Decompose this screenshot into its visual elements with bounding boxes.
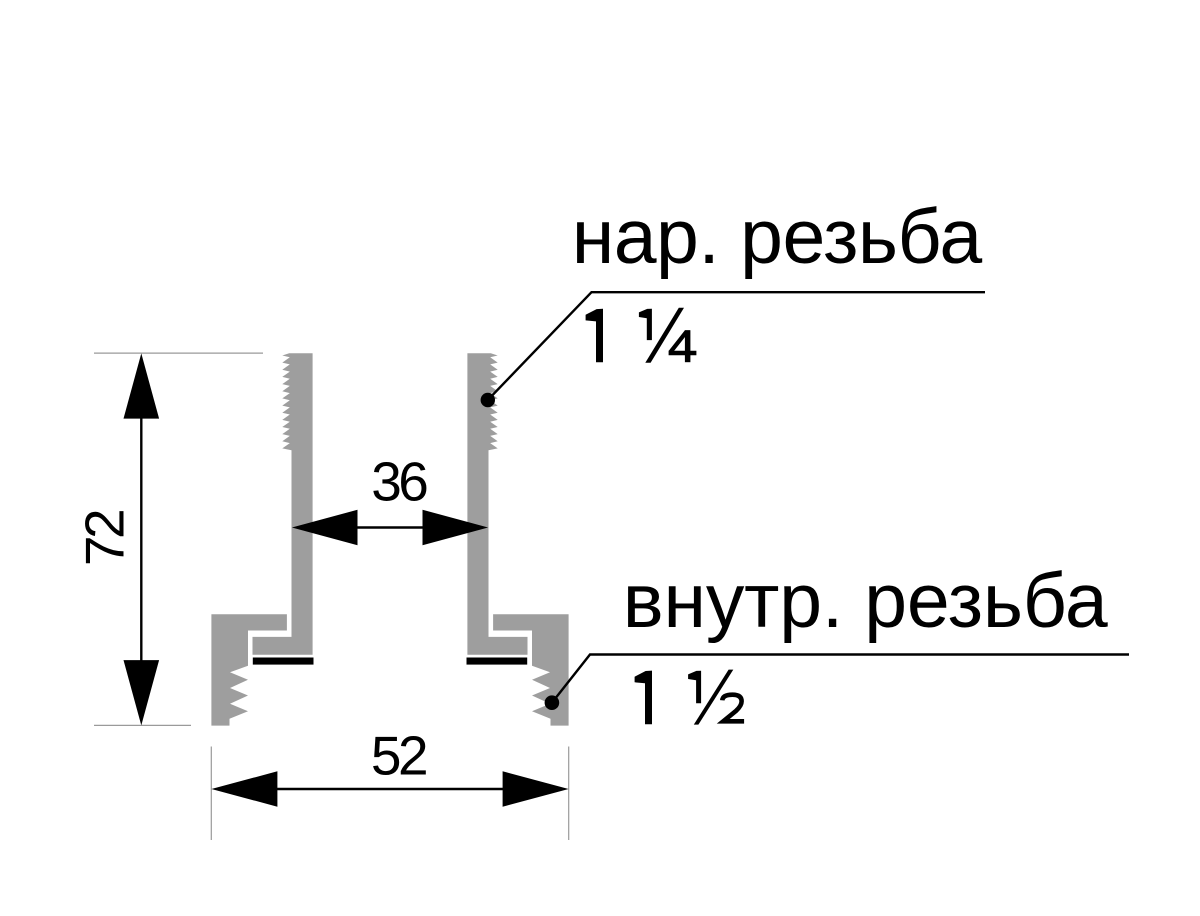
dimension line 52 (horizontal) xyxy=(275,788,504,790)
arrowhead 72 top xyxy=(124,353,160,418)
gasket left (black bar) xyxy=(253,658,314,665)
union nut left half with female thread teeth xyxy=(211,614,287,725)
leader line to label внутр. резьба xyxy=(552,655,1129,703)
svg-text:внутр. резьба: внутр. резьба xyxy=(623,558,1108,644)
arrowhead 52 right xyxy=(503,771,569,806)
svg-text:52: 52 xyxy=(371,725,426,787)
union nut right half with female thread teeth xyxy=(493,614,568,725)
label 1 1/4 xyxy=(586,309,603,363)
dimension line 36 (horizontal) xyxy=(355,526,425,528)
pipe wall right (tailpiece cross-section, right half) with male thread teeth xyxy=(467,353,527,654)
fraction 1/2 numerator xyxy=(688,671,701,704)
fraction 1/2 denominator 2 xyxy=(722,695,744,722)
arrowhead 36 right xyxy=(423,510,489,545)
fraction 1/4 denominator 4 xyxy=(685,330,691,362)
extension line top (for 72) xyxy=(94,352,263,354)
fraction 1/4 slash xyxy=(645,308,684,363)
fraction 1/2 slash xyxy=(694,670,734,725)
svg-text:нар. резьба: нар. резьба xyxy=(572,194,983,280)
fraction 1/4 numerator xyxy=(639,309,652,340)
extension line bottom-right (for 52) xyxy=(568,747,570,841)
leader dot on male thread xyxy=(481,393,495,407)
label 1 1/2 xyxy=(635,671,652,725)
extension line bottom (for 72) xyxy=(94,724,191,726)
pipe wall left (tailpiece cross-section, left half) with male thread teeth xyxy=(253,353,313,654)
arrowhead 36 left xyxy=(292,510,358,545)
arrowhead 52 left xyxy=(211,771,277,806)
svg-text:72: 72 xyxy=(74,511,136,566)
gasket right (black bar) xyxy=(467,658,528,665)
arrowhead 72 bottom xyxy=(124,660,160,725)
extension line bottom-left (for 52) xyxy=(210,747,212,841)
leader line to label нар. резьба xyxy=(488,292,985,400)
svg-text:36: 36 xyxy=(371,451,427,513)
leader dot on female thread xyxy=(545,695,560,710)
dimension line 72 (vertical) xyxy=(140,416,142,662)
